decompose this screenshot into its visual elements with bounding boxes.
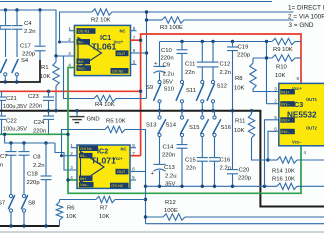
resistor R16: [277, 183, 297, 189]
node green junctions: [66, 133, 69, 136]
resistor R3: [162, 17, 184, 23]
wire IC1 pin2 to R2: [60, 12, 93, 42]
node IC1 pin2 junction: [58, 41, 61, 44]
resistor R1: [55, 56, 57, 62]
svg-text:OS N1: OS N1: [80, 146, 92, 151]
resistor R5: [105, 126, 125, 132]
svg-text:OUT2: OUT2: [306, 126, 318, 131]
svg-text:IN–: IN–: [80, 153, 87, 158]
node dots on GND bus (switch columns): [158, 109, 161, 112]
wire R8 to IC3 pin3: [253, 89, 279, 92]
svg-text:OUT1: OUT1: [306, 97, 318, 102]
pin box OS N1 (IC2 pin1): [79, 146, 98, 151]
black bus bottom-left: [0, 225, 60, 227]
svg-text:C23: C23: [28, 94, 40, 100]
svg-text:2.2n: 2.2n: [24, 29, 35, 35]
svg-text:1: 1: [68, 26, 71, 31]
svg-text:6: 6: [132, 167, 135, 172]
svg-text:220p: 220p: [237, 53, 251, 59]
svg-text:22n: 22n: [186, 166, 196, 172]
switch S10: [180, 80, 183, 83]
svg-text:R5 10K: R5 10K: [106, 119, 126, 125]
pin box OS N1 (pin1): [77, 28, 96, 34]
svg-text:GND: GND: [87, 117, 100, 123]
svg-text:IN+: IN+: [78, 59, 85, 64]
wire R2 to IC1 output node: [112, 11, 147, 13]
page rule line: [0, 231, 324, 233]
svg-text:OS N2: OS N2: [111, 183, 123, 188]
resistor R9: [272, 38, 295, 44]
svg-text:2 = VIA 100R: 2 = VIA 100R: [288, 14, 324, 21]
svg-text:6: 6: [274, 126, 277, 131]
svg-text:Vcc+: Vcc+: [113, 156, 123, 161]
svg-text:S15: S15: [189, 125, 200, 131]
svg-text:R3 100E: R3 100E: [160, 25, 183, 31]
svg-text:R6: R6: [67, 206, 75, 212]
svg-text:C9: C9: [163, 63, 171, 69]
svg-text:6: 6: [133, 48, 136, 53]
svg-text:R16 10K: R16 10K: [272, 177, 295, 183]
resistor R11: [250, 109, 253, 112]
wire IC1 pin4 area to R4: [64, 56, 95, 99]
node IC1 out dots: [145, 10, 148, 13]
op-amp IC3 NE5532 body: [279, 83, 324, 145]
capacitor C18: [45, 143, 47, 175]
svg-text:R8: R8: [235, 76, 243, 82]
resistor R7: [96, 196, 115, 202]
svg-text:R4 10K: R4 10K: [95, 102, 115, 108]
svg-text:C8: C8: [33, 155, 41, 161]
node dots on rail 2: [4, 8, 7, 11]
capacitor C11: [201, 42, 203, 62]
svg-text:S7: S7: [0, 201, 5, 207]
switch S13: [159, 111, 161, 116]
capacitor C17: [39, 10, 41, 46]
svg-text:C20: C20: [239, 168, 251, 174]
svg-text:IN1+: IN1+: [281, 89, 290, 94]
pin box IN2+ (IC3 pin5): [280, 117, 295, 122]
wire IC2 pin2 to R5: [62, 130, 106, 156]
IC2 pin5 stub: [130, 179, 136, 181]
svg-text:10K: 10K: [234, 128, 245, 134]
capacitor C21 (cut at edge): [1, 91, 3, 96]
svg-text:2.2u: 2.2u: [163, 72, 174, 78]
capacitor C13 (electrolytic): [159, 137, 161, 164]
svg-text:1: 1: [70, 143, 73, 148]
svg-text:220p: 220p: [22, 52, 36, 58]
S4 ganged frame (black): [0, 60, 40, 82]
capacitor C8: [23, 143, 25, 151]
wire R7 line: [60, 199, 97, 201]
wire R3 to right: [184, 19, 294, 21]
wire R12 line: [146, 216, 164, 218]
svg-text:3: 3: [274, 87, 277, 92]
svg-text:C17: C17: [20, 44, 31, 50]
svg-text:OUT: OUT: [117, 169, 126, 174]
svg-text:C14: C14: [163, 145, 175, 151]
pin box IN1+ (IC3 pin3): [280, 89, 295, 94]
op-amp IC1 TL061 body: [74, 25, 130, 75]
svg-text:8: 8: [132, 143, 135, 148]
svg-text:220n: 220n: [29, 104, 42, 110]
svg-text:2: 2: [68, 37, 71, 42]
svg-text:Vcc–: Vcc–: [292, 140, 302, 145]
wire R4 to IC1 out node: [116, 98, 147, 100]
pin box IN- (IC2 pin2): [79, 153, 93, 158]
svg-text:2.2n: 2.2n: [33, 163, 44, 169]
svg-text:IN2+: IN2+: [281, 118, 290, 123]
resistor R10: [272, 55, 295, 61]
svg-text:10K: 10K: [234, 86, 245, 92]
capacitor C16: [214, 137, 216, 157]
svg-text:C12: C12: [220, 62, 231, 68]
wire rail-2 left / IC1 pin3 input wire: [0, 10, 74, 56]
wire R3 line (to legend "3 = GND"): [147, 19, 163, 21]
capacitor C9 (electrolytic): [159, 42, 161, 67]
wire R11 to R14 node: [252, 138, 269, 160]
svg-text:S8: S8: [28, 201, 36, 207]
capacitor C19: [232, 42, 234, 47]
wire R5 to IC2 out node: [125, 130, 146, 172]
svg-text:100E: 100E: [164, 208, 178, 214]
switch S4 pole b: [12, 60, 18, 73]
IC2 pin8 stub: [130, 147, 136, 149]
IC2 pin1 stub: [71, 147, 77, 149]
resistor R6: [59, 220, 61, 226]
IC2 pin6 OUT wire: [130, 171, 146, 173]
capacitor C24: [48, 111, 50, 116]
op-amp IC1 triangle: [78, 38, 102, 69]
svg-text:IN2–: IN2–: [281, 129, 290, 134]
svg-text:S9: S9: [146, 85, 153, 91]
node pin3/R1 tap: [54, 54, 57, 57]
wire top rail 1 (to legend "1= DIRECT"): [0, 1, 272, 3]
green V- rail: IC1 pin4 down, across, to IC3 pin4: [68, 68, 301, 194]
wire IC3 pin6 to R14 node: [268, 131, 279, 160]
svg-text:S10: S10: [164, 87, 175, 93]
svg-text:IN–: IN–: [78, 39, 85, 44]
resistor R8: [252, 58, 254, 63]
switch S14: [181, 111, 183, 116]
svg-text:4: 4: [70, 175, 73, 180]
svg-text:C10: C10: [161, 48, 173, 54]
pin box Vcc- (pin4): [77, 65, 92, 71]
svg-text:C18: C18: [27, 172, 39, 178]
svg-text:220p: 220p: [238, 176, 252, 182]
svg-text:C4: C4: [24, 21, 32, 27]
svg-text:IN+: IN+: [80, 176, 87, 181]
switch S16: [214, 111, 216, 116]
svg-text:S12: S12: [217, 84, 227, 90]
wire filter input line: [160, 41, 273, 43]
svg-text:2: 2: [274, 99, 277, 104]
pin box OS N2 (IC2 pin5): [110, 183, 129, 188]
svg-text:1= DIRECT I: 1= DIRECT I: [288, 5, 324, 12]
IC1 pin7 Vcc+ red stub: [131, 39, 141, 41]
pin box OUT (IC2 pin6): [116, 169, 129, 175]
wire cap-bottom collector line: [146, 185, 278, 187]
wire R1 bottom to GND bus: [55, 86, 57, 111]
svg-text:R12: R12: [165, 200, 176, 206]
green stub IC2 pin4: [68, 179, 77, 181]
svg-text:+: +: [154, 61, 158, 67]
svg-text:7: 7: [132, 151, 135, 156]
svg-text:R10: R10: [276, 65, 288, 71]
svg-text:2.2u: 2.2u: [165, 174, 176, 180]
svg-text:OS N1: OS N1: [78, 29, 90, 34]
svg-text:4: 4: [68, 62, 71, 67]
wire IC3 pin2: [267, 103, 279, 105]
svg-text:R2 10K: R2 10K: [91, 18, 111, 24]
svg-text:S14: S14: [166, 123, 177, 129]
wire bottom rail: [146, 223, 324, 225]
svg-text:C24: C24: [34, 120, 46, 126]
svg-text:100u,35V: 100u,35V: [3, 127, 27, 133]
svg-text:S11: S11: [186, 88, 196, 94]
svg-text:10K: 10K: [66, 214, 77, 220]
capacitor C14: [181, 137, 183, 144]
black GND bus: [0, 111, 324, 207]
svg-text:C19: C19: [238, 45, 249, 51]
svg-text:IN1–: IN1–: [281, 102, 290, 107]
switch S8: [22, 194, 25, 197]
svg-text:C22: C22: [6, 119, 17, 125]
svg-text:C21: C21: [6, 96, 17, 102]
resistor R14: [277, 157, 297, 163]
capacitor C4: [16, 10, 18, 25]
op-amp IC2 TL071 body: [77, 145, 130, 188]
IC2 pin3 input wire from cap block: [55, 143, 77, 170]
svg-text:C11: C11: [185, 62, 195, 68]
svg-text:S4: S4: [21, 58, 29, 64]
node IC2 pin2 junction: [60, 154, 63, 157]
svg-text:100u,35V: 100u,35V: [3, 104, 27, 110]
resistor R2: [92, 9, 112, 15]
svg-text:IC2: IC2: [97, 147, 108, 156]
pin box IN2- (IC3 pin6): [280, 129, 295, 134]
switch S11: [201, 80, 204, 83]
svg-text:C7: C7: [0, 154, 8, 160]
svg-text:+: +: [151, 171, 155, 177]
svg-text:8: 8: [297, 76, 300, 81]
pin box IN+ (IC2 pin3): [79, 176, 93, 181]
red V+ rail left: [0, 90, 141, 92]
wire IC3 pin5 down to R16 line: [265, 120, 279, 187]
svg-text:3 = GND: 3 = GND: [289, 22, 314, 29]
ground symbol: [76, 111, 78, 116]
pin box Vcc- (IC2 pin4): [79, 182, 94, 187]
resistor R4: [94, 95, 116, 101]
IC2 out node vertical: [145, 172, 147, 224]
svg-text:220n: 220n: [162, 153, 175, 159]
pin box IN+ (pin3): [77, 59, 91, 65]
capacitor C23: [47, 90, 50, 93]
svg-text:220n: 220n: [161, 56, 174, 62]
svg-text:R7: R7: [100, 206, 108, 212]
switch S15: [201, 111, 203, 116]
switch S12: [211, 80, 214, 83]
capacitor C20: [227, 169, 238, 171]
svg-text:5: 5: [274, 115, 277, 120]
node red junctions: [139, 39, 142, 42]
resistor R12: [163, 214, 185, 220]
svg-text:2: 2: [70, 151, 73, 156]
svg-text:5: 5: [132, 175, 135, 180]
svg-text:22n: 22n: [185, 70, 195, 76]
pin box OS N2 (pin5): [111, 68, 129, 74]
svg-text:10K: 10K: [99, 214, 110, 220]
svg-text:3: 3: [68, 51, 71, 56]
svg-text:R1: R1: [41, 65, 49, 71]
switch S4 pole a: [1, 60, 7, 73]
svg-text:Vcc+: Vcc+: [114, 39, 124, 44]
IC1 pin6 OUT wire: [131, 52, 147, 54]
svg-text:2.2n: 2.2n: [220, 166, 231, 172]
capacitor C22 (cut at edge): [1, 111, 3, 116]
node dots on GND bus: [47, 109, 50, 112]
svg-text:S16: S16: [221, 125, 232, 131]
green branch to left edge: [0, 133, 68, 135]
IC1 pin8 stub: [131, 30, 137, 32]
capacitor C10: [181, 42, 183, 50]
svg-text:Vcc–: Vcc–: [78, 66, 87, 71]
wire IC1 output node vertical: [146, 12, 148, 99]
svg-text:35V: 35V: [163, 80, 174, 86]
wire top rail 2 (to legend "2 = VIA 100R"): [147, 11, 294, 13]
svg-text:5: 5: [133, 60, 136, 65]
svg-text:NC: NC: [121, 147, 127, 152]
svg-text:n: n: [0, 163, 3, 169]
svg-text:C13: C13: [164, 165, 176, 171]
pin box IN1- (IC3 pin2): [280, 101, 295, 106]
red V+ rail main loop to IC3 pin8: [141, 34, 301, 156]
switch S9: [158, 80, 161, 83]
svg-text:R11: R11: [235, 119, 245, 125]
capacitor C7: [10, 143, 12, 151]
svg-text:R14 10K: R14 10K: [272, 169, 295, 175]
svg-text:OUT: OUT: [117, 51, 126, 56]
IC1 pin5 stub: [131, 63, 137, 65]
capacitor C12: [212, 42, 214, 62]
svg-text:3: 3: [70, 165, 73, 170]
switch S7: [9, 194, 12, 197]
svg-text:10K: 10K: [40, 74, 51, 80]
op-amp IC2 triangle: [81, 152, 105, 183]
IC1 pin1 stub: [69, 30, 74, 32]
svg-text:R9 10K: R9 10K: [273, 47, 293, 53]
svg-text:2.2n: 2.2n: [220, 70, 231, 76]
capacitor C15: [201, 137, 203, 157]
svg-text:8: 8: [133, 26, 136, 31]
svg-text:Vcc–: Vcc–: [80, 182, 89, 187]
wire node link 41.5-58 and to IC3 pin2: [266, 42, 268, 104]
wire cap block top line: [5, 134, 55, 143]
pin box OUT (pin6): [116, 50, 129, 56]
svg-text:4: 4: [304, 150, 307, 155]
svg-text:C16: C16: [220, 158, 232, 164]
red stub to IC2 pin7: [130, 155, 141, 157]
svg-text:220p: 220p: [27, 180, 41, 186]
pin box IN- (pin2): [77, 39, 91, 45]
svg-text:10K: 10K: [275, 73, 286, 79]
svg-text:S13: S13: [146, 123, 157, 129]
wire R10 line: [253, 57, 272, 59]
svg-text:OS N2: OS N2: [112, 68, 124, 73]
svg-text:NC: NC: [120, 29, 126, 34]
capacitor column left of C4 (cut) lead: [5, 10, 7, 25]
svg-text:C15: C15: [185, 158, 197, 164]
